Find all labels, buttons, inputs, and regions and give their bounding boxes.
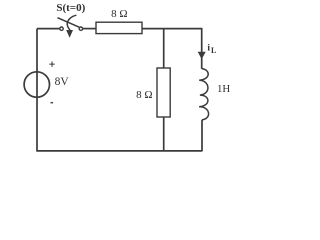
svg-text:1H: 1H	[217, 83, 230, 95]
svg-text:L: L	[211, 46, 216, 55]
svg-text:8 Ω: 8 Ω	[136, 89, 152, 101]
svg-text:S(t=0): S(t=0)	[56, 2, 85, 14]
svg-text:8 Ω: 8 Ω	[111, 8, 127, 20]
svg-text:i: i	[207, 44, 210, 54]
svg-text:8V: 8V	[55, 76, 70, 88]
